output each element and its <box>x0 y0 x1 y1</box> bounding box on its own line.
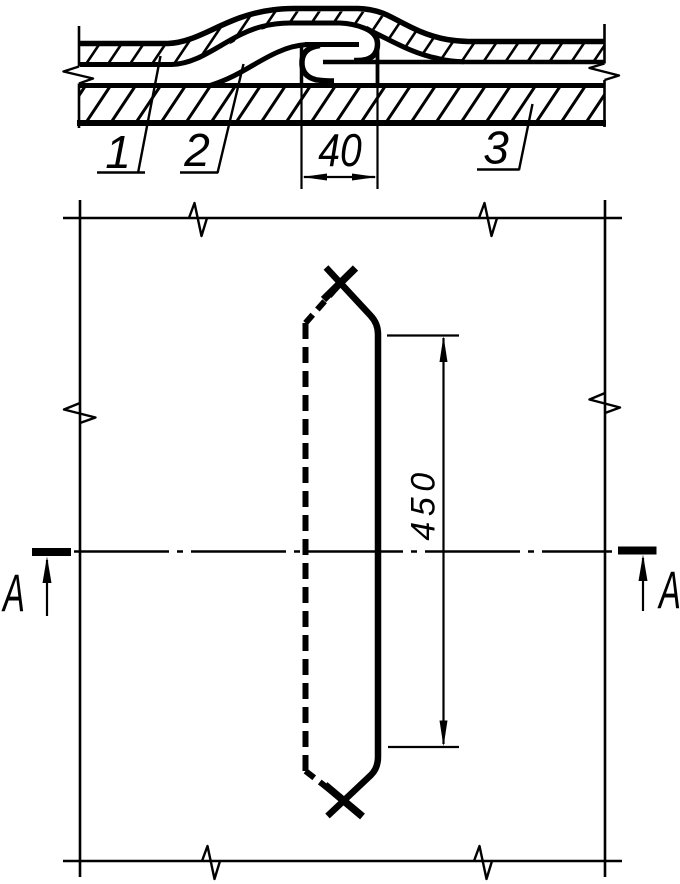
svg-text:450: 450 <box>405 467 443 540</box>
svg-text:1: 1 <box>105 126 131 178</box>
svg-text:40: 40 <box>318 125 362 177</box>
svg-text:A: A <box>657 561 680 620</box>
svg-text:A: A <box>1 564 25 623</box>
svg-text:3: 3 <box>483 122 509 174</box>
svg-text:2: 2 <box>183 124 210 176</box>
